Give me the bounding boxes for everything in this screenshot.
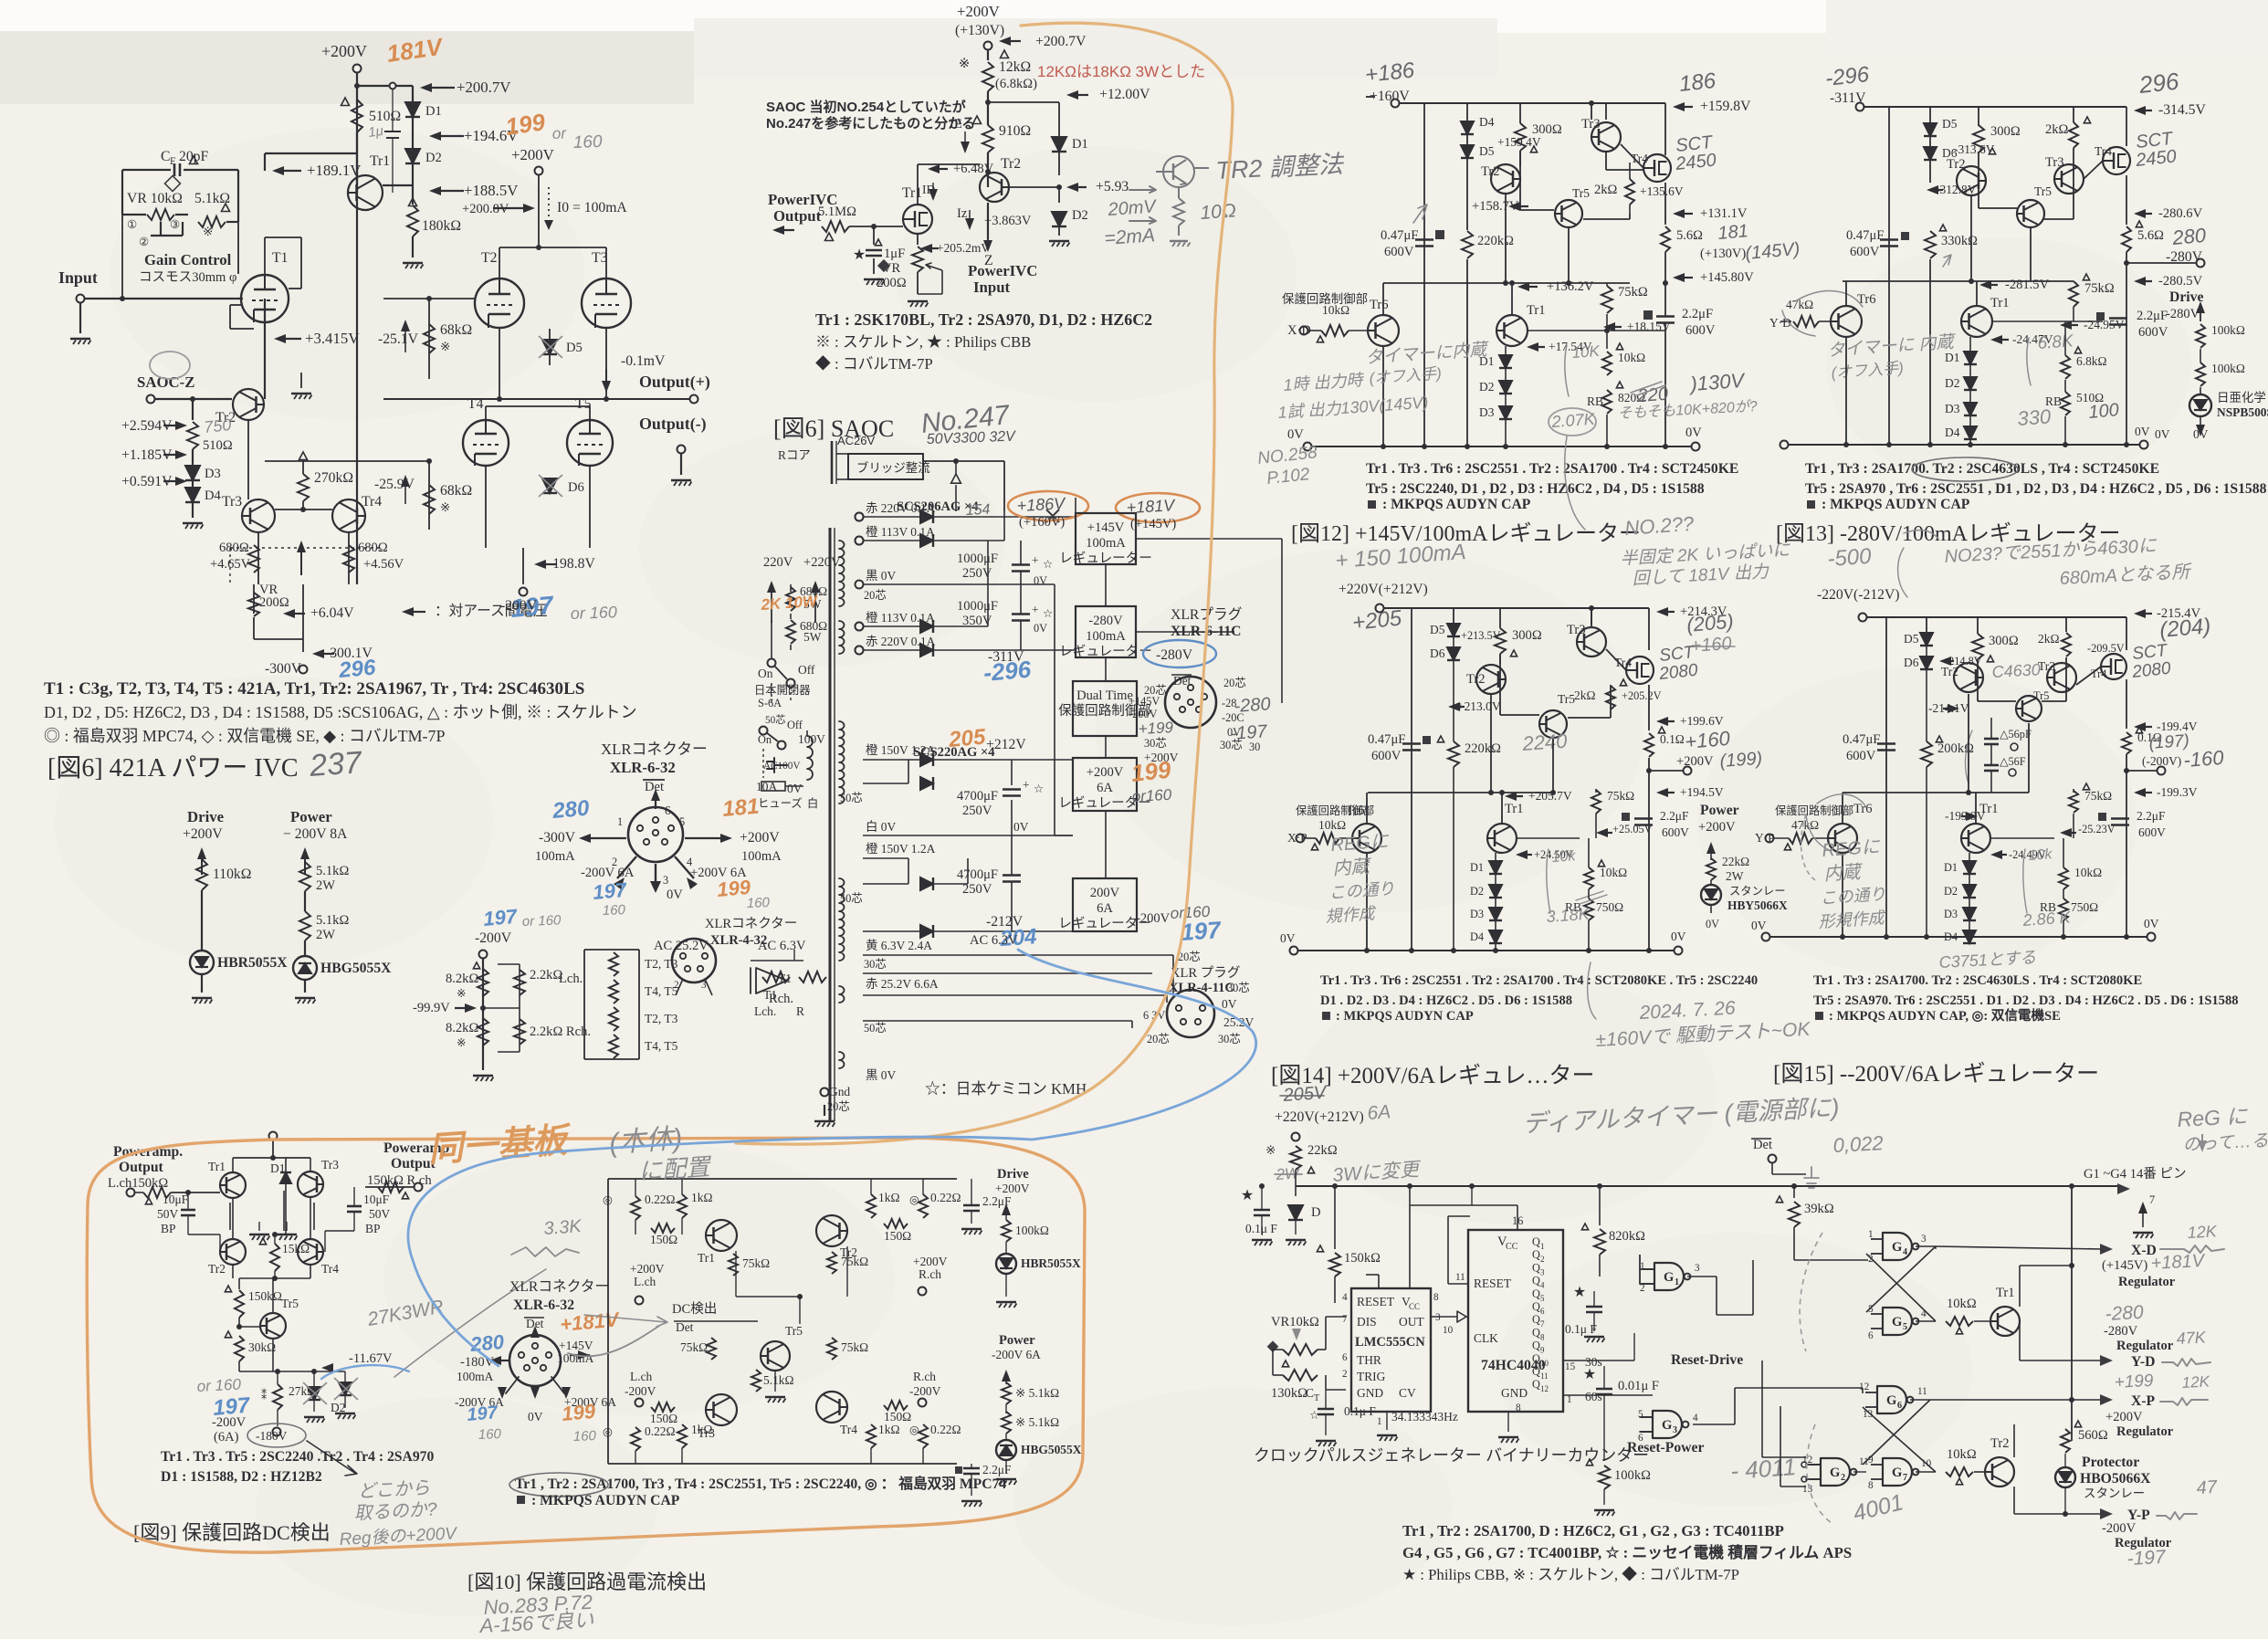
svg-text:ブリッジ整流: ブリッジ整流 [856, 460, 930, 475]
svg-text:34.133343Hz: 34.133343Hz [1391, 1410, 1458, 1424]
svg-text:+213.5V: +213.5V [1461, 629, 1501, 642]
svg-text:1: 1 [1540, 1242, 1544, 1251]
svg-text:3: 3 [663, 874, 668, 887]
svg-text:+199: +199 [2114, 1371, 2154, 1392]
svg-text:(205): (205) [1685, 610, 1734, 636]
svg-text:12kΩ: 12kΩ [999, 59, 1031, 75]
svg-text:199: 199 [1129, 756, 1172, 787]
svg-text:-200V 6A: -200V 6A [992, 1348, 1041, 1361]
svg-text:300Ω: 300Ω [1512, 628, 1542, 643]
svg-text:220kΩ: 220kΩ [1477, 234, 1514, 248]
svg-text:No.247を参考にしたものと分かる: No.247を参考にしたものと分かる [766, 115, 975, 131]
svg-text:600V: 600V [2138, 825, 2166, 839]
svg-text:D1: D1 [425, 104, 442, 119]
svg-text:Output: Output [119, 1160, 164, 1175]
svg-text:Tr1: Tr1 [1979, 802, 1999, 816]
svg-text:10: 10 [1443, 1325, 1454, 1336]
svg-text:15kΩ: 15kΩ [282, 1242, 310, 1256]
svg-text:Gain Control: Gain Control [144, 251, 232, 268]
svg-text:280: 280 [551, 796, 591, 825]
svg-text:+200V: +200V [1676, 754, 1714, 769]
svg-text:600V: 600V [1371, 749, 1402, 763]
svg-text:20芯: 20芯 [827, 1100, 850, 1113]
svg-text:コスモス30mm φ: コスモス30mm φ [139, 270, 236, 285]
svg-text:280: 280 [468, 1330, 506, 1356]
svg-text:HBG5055X: HBG5055X [320, 961, 392, 976]
svg-text:D2: D2 [425, 151, 442, 165]
svg-text:+6.48V: +6.48V [953, 162, 994, 176]
svg-text:0.47μF: 0.47μF [1843, 732, 1880, 747]
svg-text:7: 7 [1540, 1319, 1545, 1329]
svg-text:HBR5055X: HBR5055X [1021, 1256, 1081, 1270]
svg-text:0.47μF: 0.47μF [1381, 228, 1418, 243]
svg-text:0.47μF: 0.47μF [1368, 732, 1405, 747]
svg-text:Tr2: Tr2 [1481, 164, 1500, 179]
svg-text:※: ※ [440, 500, 450, 514]
svg-text:5.1kΩ: 5.1kΩ [316, 913, 349, 928]
svg-text:+160V: +160V [1370, 89, 1410, 104]
svg-text:D6: D6 [1904, 656, 1919, 669]
svg-text:50芯: 50芯 [840, 792, 863, 804]
svg-text:0V: 0V [1706, 918, 1719, 930]
svg-text:1: 1 [1675, 1277, 1679, 1287]
svg-text:+145.80V: +145.80V [1700, 270, 1754, 285]
svg-text:0V: 0V [528, 1410, 543, 1424]
svg-text:NO.2??: NO.2?? [1624, 512, 1696, 540]
svg-text:-220V(-212V): -220V(-212V) [1817, 587, 1900, 603]
svg-text:※: ※ [1265, 1143, 1276, 1157]
svg-text:D2: D2 [1944, 885, 1958, 898]
svg-text:or 160: or 160 [522, 913, 562, 930]
svg-text:Tr3: Tr3 [321, 1158, 339, 1171]
svg-text:or: or [551, 124, 567, 142]
svg-text:AC100V: AC100V [763, 761, 800, 772]
svg-text:3: 3 [1673, 1425, 1677, 1435]
svg-text:0V: 0V [667, 888, 683, 902]
svg-text:: MKPQS AUDYN CAP, ◎: 双信電機SE: : MKPQS AUDYN CAP, ◎: 双信電機SE [1829, 1007, 2061, 1024]
svg-text:Output: Output [773, 207, 822, 225]
svg-text:-198.8V: -198.8V [548, 556, 595, 572]
svg-text:Regulator: Regulator [2116, 1424, 2174, 1439]
svg-text:50芯: 50芯 [765, 713, 785, 726]
svg-text:-25.1V: -25.1V [378, 331, 419, 347]
svg-text:250V: 250V [962, 882, 992, 897]
svg-text:REGに: REGに [1330, 832, 1391, 856]
svg-text:+145V: +145V [1129, 695, 1160, 708]
svg-text:D1, D2 , D5: HZ6C2, D3 , D4 :: D1, D2 , D5: HZ6C2, D3 , D4 : 1S1588, D5… [44, 703, 636, 721]
svg-text:12: 12 [1859, 1382, 1869, 1392]
svg-text:4700μF: 4700μF [957, 867, 998, 882]
svg-text:①: ① [127, 218, 137, 231]
svg-text:5.6Ω: 5.6Ω [2137, 228, 2164, 243]
svg-text:Tr5 : 2SA970. Tr6 : 2SC2551 .: Tr5 : 2SA970. Tr6 : 2SC2551 . D1 . D2 . … [1813, 993, 2239, 1008]
svg-text:0V: 0V [1222, 997, 1237, 1011]
svg-text:GND: GND [1501, 1386, 1528, 1400]
svg-text:Tr1 , Tr2 : 2SA1700, D : HZ6C2: Tr1 , Tr2 : 2SA1700, D : HZ6C2, G1 , G2 … [1402, 1522, 1784, 1539]
svg-text:規作成: 規作成 [1325, 904, 1378, 926]
svg-text:2.2μF: 2.2μF [2137, 809, 2165, 823]
svg-text:Q: Q [1532, 1326, 1540, 1339]
svg-text:AC 6.3V: AC 6.3V [970, 933, 1018, 948]
svg-text:30芯: 30芯 [1218, 1033, 1241, 1045]
svg-text:0.01μ F: 0.01μ F [1618, 1379, 1659, 1393]
svg-text:220V: 220V [763, 555, 793, 570]
svg-text:Input: Input [973, 278, 1011, 296]
svg-text:+200.7V: +200.7V [1035, 34, 1087, 49]
svg-text:黄 6.3V 2.4A: 黄 6.3V 2.4A [866, 939, 932, 952]
svg-text:600V: 600V [1662, 825, 1689, 839]
svg-text:Tr6: Tr6 [1346, 804, 1365, 818]
svg-text:160: 160 [573, 1428, 597, 1445]
svg-text:X-P: X-P [2131, 1393, 2156, 1409]
svg-text:350V: 350V [962, 614, 992, 628]
svg-text:0V: 0V [787, 782, 803, 795]
svg-text:※: ※ [457, 987, 466, 1000]
svg-text:0.22Ω: 0.22Ω [645, 1192, 676, 1206]
svg-text:=2mA: =2mA [1104, 225, 1156, 249]
svg-text:330kΩ: 330kΩ [1941, 234, 1978, 248]
svg-text:280: 280 [2170, 224, 2208, 249]
svg-text:160: 160 [747, 895, 771, 911]
svg-text:+3.863V: +3.863V [984, 214, 1032, 228]
svg-text:+200V: +200V [1698, 820, 1736, 835]
svg-text:50V: 50V [157, 1207, 178, 1221]
svg-text:Tr2: Tr2 [1001, 156, 1021, 172]
svg-text:+: + [1032, 553, 1039, 567]
svg-text:NSPB500S: NSPB500S [2217, 405, 2268, 419]
svg-text:On: On [758, 733, 772, 746]
svg-text:Q: Q [1532, 1378, 1540, 1391]
svg-text:D4: D4 [1479, 115, 1495, 129]
svg-text:☆：日本ケミコン KMH: ☆：日本ケミコン KMH [925, 1080, 1087, 1098]
svg-text:10kΩ: 10kΩ [2074, 866, 2102, 879]
svg-text:1: 1 [1868, 1229, 1874, 1240]
svg-text:0.22Ω: 0.22Ω [930, 1191, 961, 1204]
svg-text:Off: Off [798, 663, 815, 677]
svg-text:600V: 600V [1685, 323, 1716, 338]
svg-text:T2: T2 [481, 250, 497, 266]
svg-text:+186V: +186V [1016, 494, 1067, 515]
svg-text:G: G [1892, 1240, 1902, 1255]
svg-text:-280.5V: -280.5V [2158, 274, 2203, 289]
svg-text:+181V: +181V [2150, 1251, 2206, 1274]
svg-text:750Ω: 750Ω [1596, 900, 1623, 914]
svg-text:Q: Q [1532, 1313, 1540, 1326]
svg-text:2.2μF: 2.2μF [1682, 307, 1713, 321]
svg-text:22kΩ: 22kΩ [1307, 1143, 1338, 1158]
svg-text:D5: D5 [1430, 623, 1445, 636]
svg-text:: MKPQS AUDYN CAP: : MKPQS AUDYN CAP [531, 1493, 680, 1508]
svg-text:Q: Q [1532, 1300, 1540, 1313]
svg-text:HBO5066X: HBO5066X [2080, 1471, 2151, 1487]
svg-text:100kΩ: 100kΩ [2211, 362, 2245, 375]
svg-text:2.2kΩ: 2.2kΩ [530, 968, 562, 982]
svg-text:☆: ☆ [1309, 1409, 1319, 1422]
svg-text:or 160: or 160 [570, 603, 617, 623]
svg-text:11: 11 [1455, 1272, 1465, 1283]
svg-text:9: 9 [1540, 1346, 1545, 1355]
svg-text:20芯: 20芯 [1223, 677, 1246, 689]
svg-text:+160: +160 [1684, 727, 1731, 753]
svg-text:白 0V: 白 0V [866, 820, 897, 834]
svg-text:T1: T1 [272, 250, 288, 266]
svg-text:75kΩ: 75kΩ [742, 1256, 770, 1270]
svg-text:Tr3: Tr3 [1567, 623, 1586, 637]
svg-text:-25.9V: -25.9V [374, 477, 415, 492]
svg-text:6.8K: 6.8K [2037, 331, 2075, 353]
svg-text:130kΩ: 130kΩ [1271, 1386, 1307, 1401]
svg-text:-0.1mV: -0.1mV [621, 353, 666, 369]
svg-text:+0.591V: +0.591V [121, 474, 173, 489]
svg-text:-160: -160 [2183, 746, 2225, 772]
svg-text:Tr2: Tr2 [208, 1262, 226, 1276]
svg-text:★: ★ [853, 247, 866, 263]
svg-text:-313.6V: -313.6V [1954, 142, 1995, 156]
svg-text:+160: +160 [1690, 634, 1732, 657]
svg-text:150Ω: 150Ω [884, 1229, 911, 1243]
svg-text:-200V: -200V [909, 1384, 941, 1398]
svg-text:1: 1 [617, 815, 623, 828]
svg-text:270kΩ: 270kΩ [314, 470, 353, 486]
svg-text:100kΩ: 100kΩ [2211, 323, 2245, 337]
svg-text:5: 5 [1540, 1294, 1545, 1303]
svg-text:2W: 2W [316, 928, 335, 942]
svg-text:10: 10 [1540, 1359, 1549, 1368]
svg-text:Tr1: Tr1 [902, 185, 922, 201]
svg-text:6A: 6A [1097, 901, 1113, 916]
svg-text:+145V: +145V [1087, 520, 1125, 535]
svg-text:+200V: +200V [183, 826, 223, 842]
svg-text:Tr6: Tr6 [1857, 292, 1876, 307]
svg-text:-200V: -200V [2102, 1521, 2137, 1536]
svg-text:※ : スケルトン, ★ : Philips CBB: ※ : スケルトン, ★ : Philips CBB [815, 333, 1031, 351]
svg-text:3: 3 [1540, 1267, 1545, 1277]
svg-text:0V: 0V [1751, 919, 1767, 932]
svg-text:レギュレーター: レギュレーター [1059, 551, 1152, 566]
svg-text:10kΩ: 10kΩ [1947, 1297, 1977, 1311]
svg-text:D3: D3 [1479, 405, 1495, 419]
svg-text:-199.4V: -199.4V [2157, 720, 2198, 733]
svg-text:-200V: -200V [500, 598, 538, 614]
svg-text:75kΩ: 75kΩ [841, 1255, 868, 1268]
svg-text:+205.7V: +205.7V [1528, 789, 1572, 803]
svg-text:6: 6 [1342, 1352, 1348, 1363]
svg-text:XLR-6-32: XLR-6-32 [513, 1298, 574, 1313]
svg-text:Power: Power [1700, 803, 1739, 818]
svg-text:0.1Ω: 0.1Ω [1660, 732, 1685, 746]
svg-text:3.18K: 3.18K [1546, 905, 1591, 926]
svg-text:★: ★ [1573, 1285, 1586, 1300]
svg-text:+200.7V: +200.7V [457, 79, 510, 96]
svg-text:+200V: +200V [1087, 765, 1124, 780]
svg-text:G4 , G5 , G6 , G7 : TC4001BP,: G4 , G5 , G6 , G7 : TC4001BP, ☆ : ニッセイ電機… [1402, 1543, 1852, 1561]
svg-text:G: G [1662, 1418, 1672, 1433]
svg-text:+200V: +200V [740, 830, 780, 846]
svg-text:Input: Input [58, 268, 98, 287]
svg-text:D1: D1 [1479, 354, 1494, 368]
svg-text:+200V: +200V [2105, 1410, 2143, 1424]
svg-text:日本開閉器: 日本開閉器 [754, 684, 811, 697]
svg-text:D1: D1 [1944, 861, 1958, 874]
svg-text:-280V: -280V [2166, 307, 2200, 321]
svg-text:Output(+): Output(+) [639, 373, 710, 392]
svg-text:Protector: Protector [2082, 1455, 2139, 1470]
svg-text:XLR プラグ: XLR プラグ [1171, 965, 1240, 981]
svg-text:T: T [1314, 1393, 1319, 1403]
svg-text:+6.04V: +6.04V [310, 605, 354, 621]
svg-text:-500: -500 [1827, 544, 1873, 572]
svg-text:-200V: -200V [1129, 708, 1158, 720]
svg-text:10k: 10k [1551, 848, 1577, 866]
svg-text:Rコア: Rコア [778, 448, 811, 462]
svg-text:-200V 6A: -200V 6A [581, 866, 635, 880]
svg-text:560Ω: 560Ω [2078, 1428, 2108, 1443]
svg-text:1: 1 [1567, 1394, 1572, 1405]
svg-text:4700μF: 4700μF [957, 789, 998, 804]
svg-text:Tr6: Tr6 [1853, 802, 1873, 816]
svg-text:6: 6 [1540, 1307, 1545, 1316]
svg-text:+186: +186 [1364, 58, 1416, 88]
svg-text:I0 = 100mA: I0 = 100mA [557, 200, 627, 215]
svg-text:Lch.: Lch. [754, 1004, 776, 1018]
svg-text:3.3K: 3.3K [543, 1216, 583, 1239]
svg-text:XLRコネクター: XLRコネクター [509, 1278, 609, 1295]
svg-text:Tr2: Tr2 [1941, 665, 1958, 678]
svg-text:Tr2: Tr2 [1990, 1436, 2010, 1451]
svg-text:D5: D5 [566, 341, 583, 355]
svg-text:D1 : 1S1588, D2 : HZ12B2: D1 : 1S1588, D2 : HZ12B2 [161, 1469, 322, 1485]
svg-text:-280V: -280V [1088, 614, 1123, 628]
svg-text:Output(-): Output(-) [639, 415, 707, 434]
svg-text:(+130V): (+130V) [1700, 247, 1746, 261]
svg-text:★: ★ [1583, 1367, 1596, 1382]
svg-text:L.ch: L.ch [630, 1370, 653, 1383]
svg-text:60s: 60s [1585, 1390, 1602, 1403]
svg-text:or160: or160 [1131, 786, 1172, 805]
svg-text:197: 197 [1180, 916, 1223, 946]
svg-text:Drive: Drive [2169, 289, 2203, 305]
svg-text:220kΩ: 220kΩ [1465, 741, 1501, 756]
svg-text:D1 . D2 . D3 . D4 : HZ6C2 . D5: D1 . D2 . D3 . D4 : HZ6C2 . D5 . D6 : 1S… [1320, 993, 1572, 1008]
svg-text:12KΩは18KΩ 3Wとした: 12KΩは18KΩ 3Wとした [1037, 63, 1205, 80]
svg-text:Regulator: Regulator [2116, 1339, 2174, 1353]
svg-text:+199: +199 [1138, 719, 1174, 738]
svg-text:600V: 600V [1384, 245, 1414, 259]
svg-text:100mA: 100mA [741, 849, 782, 864]
svg-text:-280: -280 [2105, 1302, 2144, 1325]
svg-text:0.47μF: 0.47μF [1846, 228, 1884, 243]
svg-text:5: 5 [1903, 1322, 1907, 1332]
svg-text:T5: T5 [575, 396, 592, 412]
svg-text:+2.594V: +2.594V [121, 418, 173, 434]
svg-text:Off: Off [787, 719, 803, 731]
svg-text:-200V: -200V [212, 1415, 247, 1430]
svg-text:L.ch150kΩ: L.ch150kΩ [108, 1176, 168, 1191]
svg-text:Det: Det [1753, 1138, 1772, 1152]
svg-text:D2: D2 [1072, 208, 1088, 223]
svg-text:3: 3 [1695, 1263, 1700, 1274]
svg-text:G1 ~G4 14番 ピン: G1 ~G4 14番 ピン [2084, 1166, 2187, 1182]
svg-text:Tr4: Tr4 [321, 1262, 339, 1276]
svg-text:7: 7 [1342, 1314, 1348, 1325]
svg-text:22kΩ: 22kΩ [1722, 855, 1749, 868]
svg-text:Tr5: Tr5 [1558, 692, 1575, 706]
svg-text:G: G [1892, 1315, 1902, 1329]
svg-text:20mV: 20mV [1107, 196, 1158, 220]
svg-text:RESET: RESET [1474, 1277, 1511, 1290]
svg-text:181: 181 [721, 794, 760, 822]
svg-text:-209.5V: -209.5V [2087, 642, 2125, 655]
svg-text:黒 0V: 黒 0V [866, 569, 897, 583]
svg-text:Q: Q [1532, 1340, 1540, 1352]
svg-text:11: 11 [1859, 1456, 1869, 1467]
svg-text:△56pF: △56pF [2000, 728, 2032, 741]
svg-text:D2: D2 [1479, 380, 1494, 394]
svg-text:1000μF: 1000μF [957, 552, 998, 566]
svg-text:Tr1 . Tr3 . Tr5 : 2SC2240 .T: Tr1 . Tr3 . Tr5 : 2SC2240 .Tr2 . Tr4 : 2… [161, 1449, 435, 1465]
svg-text:T1 : C3g, T2, T3, T4, T5 : 421: T1 : C3g, T2, T3, T4, T5 : 421A, Tr1, Tr… [44, 679, 584, 699]
svg-text:[図9] 保護回路DC検出: [図9] 保護回路DC検出 [133, 1521, 331, 1544]
svg-text:+: + [1032, 603, 1039, 616]
svg-text:154: 154 [965, 502, 991, 519]
svg-text:T4, T5: T4, T5 [645, 1039, 678, 1053]
svg-text:Y-D: Y-D [2131, 1354, 2155, 1370]
svg-text:50V: 50V [369, 1207, 390, 1221]
svg-text:: MKPQS AUDYN CAP: : MKPQS AUDYN CAP [1336, 1009, 1474, 1024]
svg-text:0V: 0V [1034, 574, 1047, 587]
svg-text:750: 750 [203, 415, 232, 436]
svg-text:D1: D1 [1945, 351, 1959, 364]
svg-text:: MKPQS AUDYN CAP: : MKPQS AUDYN CAP [1822, 497, 1970, 512]
svg-text:[図6] SAOC: [図6] SAOC [773, 415, 894, 442]
svg-text:BP: BP [161, 1222, 175, 1235]
svg-text:296: 296 [2137, 68, 2180, 100]
svg-text:200Ω: 200Ω [259, 595, 289, 610]
svg-text:4: 4 [1342, 1292, 1348, 1303]
svg-text:Tr3: Tr3 [222, 494, 242, 510]
svg-text:2.86 K: 2.86 K [2021, 908, 2072, 930]
svg-text:+205.2V: +205.2V [1622, 689, 1662, 702]
svg-text:910Ω: 910Ω [999, 123, 1031, 139]
svg-text:C: C [161, 149, 170, 164]
svg-text:+205.2mV: +205.2mV [937, 241, 990, 255]
svg-text:10kΩ: 10kΩ [1318, 818, 1346, 832]
svg-text:BP: BP [365, 1222, 380, 1235]
svg-text:CC: CC [1506, 1242, 1518, 1252]
svg-text:Det: Det [676, 1320, 694, 1334]
svg-text:+200V: +200V [957, 3, 1000, 20]
svg-text:☆: ☆ [1034, 783, 1044, 795]
svg-text:110kΩ: 110kΩ [213, 867, 251, 882]
svg-text:+188.5V: +188.5V [464, 182, 518, 199]
svg-text:10kΩ: 10kΩ [1618, 351, 1645, 364]
svg-text:11: 11 [1540, 1371, 1549, 1381]
svg-text:8.2kΩ: 8.2kΩ [446, 972, 478, 986]
svg-text:Power: Power [999, 1333, 1035, 1348]
svg-text:+25.05V: +25.05V [1612, 823, 1653, 835]
svg-text:(+145V): (+145V) [1130, 517, 1176, 531]
svg-text:4: 4 [1693, 1413, 1698, 1424]
svg-text:197: 197 [467, 1403, 499, 1425]
svg-text:160: 160 [478, 1426, 502, 1443]
svg-text:Q: Q [1532, 1287, 1540, 1300]
svg-text:XLRコネクター: XLRコネクター [705, 916, 797, 931]
svg-text:1: 1 [1377, 1416, 1382, 1427]
svg-text:Q: Q [1532, 1365, 1540, 1378]
svg-text:G: G [1664, 1270, 1674, 1285]
svg-text:(6A): (6A) [214, 1430, 239, 1445]
svg-text:+200V: +200V [511, 146, 554, 163]
